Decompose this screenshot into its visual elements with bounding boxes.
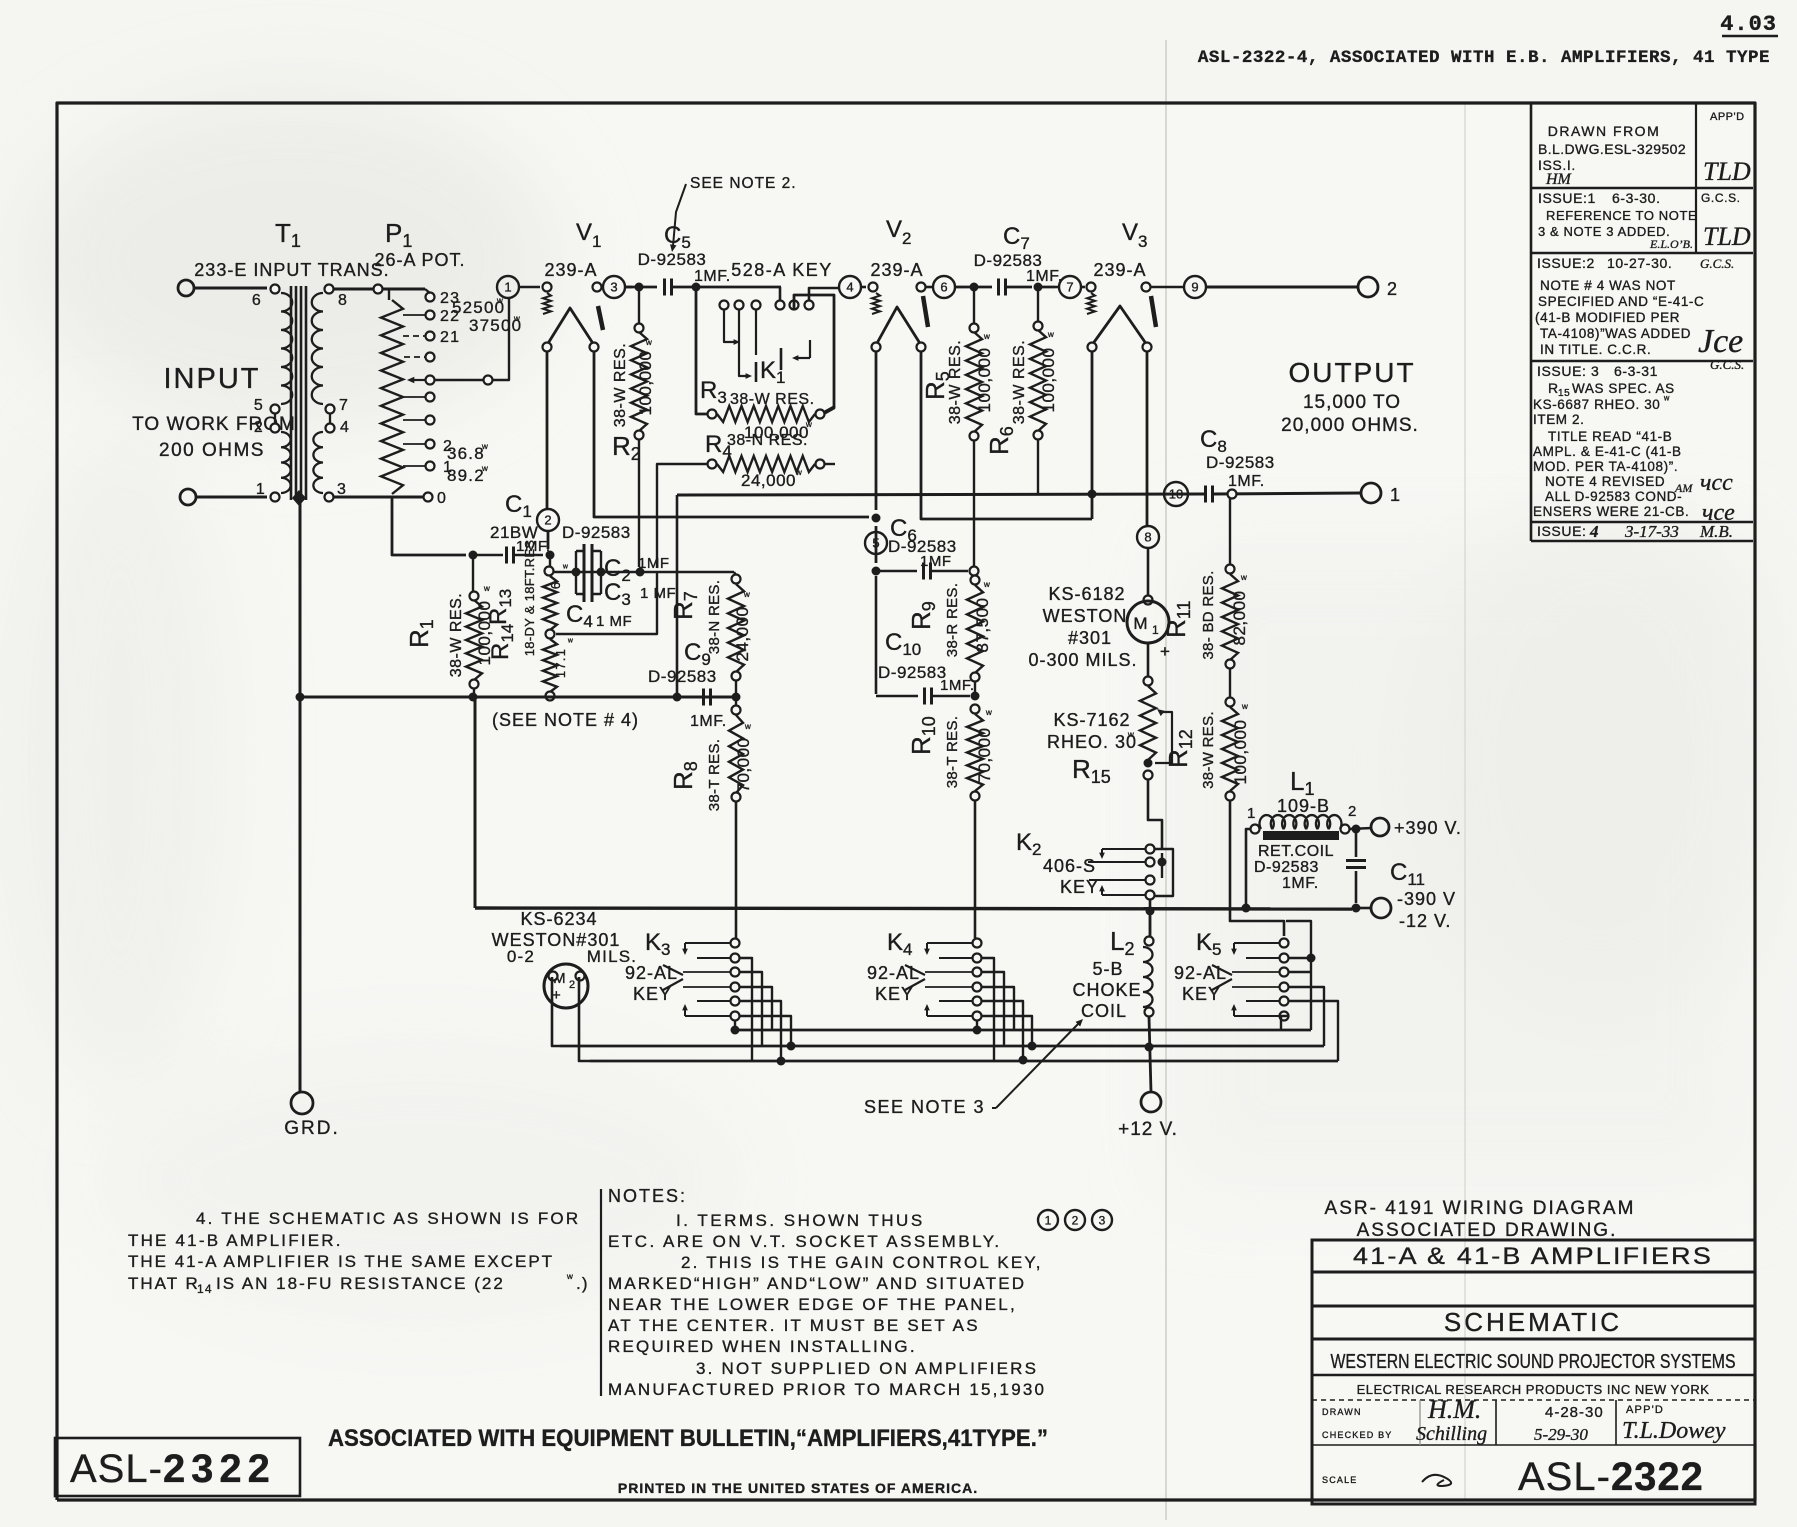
svg-text:KS-6182: KS-6182 [1048, 584, 1125, 604]
wire P1 bottom to C1 [392, 497, 466, 555]
svg-text:NEAR THE LOWER EDGE OF TH: NEAR THE LOWER EDGE OF THE PANEL, [608, 1295, 1017, 1314]
svg-text:10: 10 [1169, 487, 1183, 502]
wire M2 right to bus3 [579, 977, 590, 1061]
svg-text:D-92583: D-92583 [1206, 453, 1275, 472]
svg-text:1: 1 [504, 280, 511, 295]
svg-text:H.M.: H.M. [1427, 1395, 1481, 1424]
svg-text:82,000: 82,000 [1230, 591, 1249, 646]
svg-text:KEY: KEY [633, 984, 672, 1004]
svg-text:WESTERN ELECTRIC SOUND PROJECT: WESTERN ELECTRIC SOUND PROJECTOR SYSTEMS [1331, 1351, 1736, 1373]
svg-text:ʷ: ʷ [1241, 701, 1249, 715]
svg-text:NOTE 4 REVISED: NOTE 4 REVISED [1545, 474, 1665, 489]
svg-text:2. THIS IS THE GAIN CONTRO: 2. THIS IS THE GAIN CONTROL KEY, [681, 1253, 1043, 1272]
junction C10 R10 [971, 692, 980, 701]
svg-text:ASR- 4191 WIRING DIAGRAM: ASR- 4191 WIRING DIAGRAM [1325, 1198, 1636, 1219]
svg-text:21: 21 [440, 329, 460, 346]
notes divider line [600, 1189, 602, 1396]
svg-text:-390 V: -390 V [1397, 889, 1456, 909]
svg-text:M: M [1133, 614, 1148, 633]
resistor R7 [732, 575, 741, 584]
resistor R1 [472, 559, 474, 592]
vt socket terminal 9 [1184, 276, 1206, 298]
svg-text:B.L.DWG.ESL-329502: B.L.DWG.ESL-329502 [1538, 141, 1686, 157]
resistor R10 [974, 681, 976, 692]
svg-text:8: 8 [1144, 530, 1151, 545]
svg-text:239-A: 239-A [1093, 260, 1146, 280]
svg-text:1MF.: 1MF. [690, 713, 727, 730]
svg-text:8: 8 [338, 292, 348, 309]
svg-text:38-R RES.: 38-R RES. [944, 583, 961, 657]
svg-text:17.1: 17.1 [553, 648, 568, 678]
svg-text:KS-6687 RHEO. 30: KS-6687 RHEO. 30 [1533, 397, 1660, 412]
svg-text:SEE NOTE 3: SEE NOTE 3 [864, 1097, 985, 1117]
svg-text:200 OHMS: 200 OHMS [159, 440, 265, 461]
svg-text:92-AL: 92-AL [867, 963, 920, 983]
svg-text:D-92583: D-92583 [562, 523, 631, 542]
svg-text:24,000: 24,000 [741, 471, 796, 490]
svg-text:92-AL: 92-AL [625, 963, 678, 983]
svg-text:TLD: TLD [1703, 157, 1751, 186]
svg-text:MARKED“HIGH” AND“LOW” AND SITU: MARKED“HIGH” AND“LOW” AND SITUATED [608, 1274, 1026, 1293]
wire K5 risers [1286, 921, 1311, 958]
svg-text:ASL-2322-4, ASSOCIATED WITH E.: ASL-2322-4, ASSOCIATED WITH E.B. AMPLIFI… [1198, 48, 1770, 68]
rheostat R15 KS-7162 [1140, 686, 1156, 760]
svg-text:5: 5 [254, 397, 264, 414]
svg-text:G.C.S.: G.C.S. [1701, 191, 1741, 205]
svg-text:ISSUE:2: ISSUE:2 [1537, 255, 1595, 271]
svg-text:38-T RES.: 38-T RES. [944, 716, 961, 788]
svg-text:.): .) [576, 1274, 589, 1293]
transformer T1 core [290, 286, 293, 500]
svg-text:SCHEMATIC: SCHEMATIC [1444, 1307, 1622, 1337]
svg-text:MANUFACTURED PRIOR TO MARCH: MANUFACTURED PRIOR TO MARCH 15,1930 [608, 1380, 1046, 1399]
svg-text:1: 1 [1152, 623, 1160, 637]
svg-text:+390 V.: +390 V. [1394, 818, 1462, 838]
svg-text:WESTON: WESTON [1043, 606, 1128, 626]
potentiometer P1 resistance element [381, 300, 403, 494]
wire V2 leg to C10 [875, 576, 878, 694]
resistor R8 [735, 701, 737, 706]
junction C5 output node [692, 283, 701, 292]
svg-text:ʷ: ʷ [743, 589, 751, 603]
svg-text:1: 1 [256, 481, 266, 498]
svg-text:1: 1 [1247, 805, 1257, 822]
svg-text:70,000: 70,000 [734, 738, 753, 793]
svg-text:2: 2 [569, 979, 576, 991]
resistor R6 [1037, 291, 1039, 322]
svg-text:4-28-30: 4-28-30 [1545, 1404, 1604, 1421]
svg-text:ELECTRICAL RESEARCH PRODUCTS: ELECTRICAL RESEARCH PRODUCTS INC NEW YOR… [1357, 1382, 1710, 1397]
svg-text:6-3-30.: 6-3-30. [1612, 190, 1661, 206]
junction R5 top [970, 283, 979, 292]
svg-text:NOTES:: NOTES: [608, 1186, 687, 1206]
svg-text:D-92583: D-92583 [878, 663, 947, 682]
wire R10 to key K4 [974, 800, 977, 938]
svg-text:100,000: 100,000 [636, 351, 655, 416]
wire bottom bus 1 [735, 1029, 1311, 1032]
wire V1 plate to terminal 3 [601, 286, 604, 289]
svg-text:6: 6 [940, 280, 947, 295]
svg-text:38-W RES.: 38-W RES. [1200, 711, 1217, 789]
svg-text:2: 2 [544, 513, 551, 528]
key K5 92-AL [1280, 939, 1289, 948]
resistor R12 [1229, 668, 1231, 698]
svg-text:Schilling: Schilling [1416, 1423, 1487, 1445]
svg-text:KEY: KEY [1182, 984, 1221, 1004]
wire L1 left to negative bus [1246, 829, 1251, 906]
wire R8 to key K3 [735, 801, 738, 938]
svg-text:38-N RES.: 38-N RES. [706, 580, 723, 654]
svg-text:38-W RES.: 38-W RES. [612, 343, 629, 428]
svg-text:ʷ: ʷ [481, 441, 489, 455]
svg-text:1: 1 [1045, 1213, 1052, 1227]
svg-text:38-W RES.: 38-W RES. [448, 593, 465, 678]
wire terminal 8 to meter M1 [1147, 548, 1150, 597]
potentiometer P1 taps [426, 293, 435, 302]
svg-text:T.L.Dowey: T.L.Dowey [1622, 1418, 1726, 1444]
junction R1 bottom [469, 693, 478, 702]
output terminal 1 [1361, 483, 1381, 503]
svg-text:0-300 MILS.: 0-300 MILS. [1028, 650, 1137, 670]
svg-text:38-W RES.: 38-W RES. [947, 340, 964, 425]
wire ground lead [299, 498, 302, 1092]
capacitor C11 [1355, 833, 1358, 857]
wire P1 bottom row [334, 496, 424, 499]
svg-text:14: 14 [197, 1282, 213, 1296]
transformer T1 secondary winding [325, 285, 334, 294]
svg-text:APP'D: APP'D [1710, 111, 1745, 123]
svg-text:10-27-30.: 10-27-30. [1607, 255, 1672, 271]
svg-text:ʷ: ʷ [744, 721, 752, 735]
svg-text:15,000 TO: 15,000 TO [1303, 392, 1401, 413]
svg-text:ISSUE:: ISSUE: [1537, 523, 1587, 539]
svg-text:1MF.: 1MF. [1282, 875, 1319, 892]
svg-text:ʷ: ʷ [481, 463, 489, 477]
wire V2 filament right leg to V3 [921, 351, 1092, 519]
wire terminal1 to V1 grid [519, 286, 540, 289]
svg-text:9: 9 [1191, 280, 1198, 295]
svg-text:3: 3 [1099, 1213, 1106, 1227]
svg-text:ʷ: ʷ [1047, 329, 1055, 343]
potentiometer wiper arrow [410, 379, 425, 381]
svg-text:E.L.O’B.: E.L.O’B. [1649, 237, 1693, 251]
wire C2 C3 to R7 [576, 571, 734, 573]
junction R1 top [469, 551, 478, 560]
wire bottom bus 2 [560, 1045, 1324, 1048]
svg-text:CHOKE: CHOKE [1072, 980, 1141, 1000]
svg-text:V: V [576, 219, 593, 246]
svg-text:ʷ: ʷ [1240, 572, 1248, 586]
wire negative supply bus [475, 908, 1352, 909]
wire M1 to R15 [1147, 643, 1150, 678]
svg-text:AMPL. & E-41-C (41-B: AMPL. & E-41-C (41-B [1533, 444, 1682, 459]
svg-text:1: 1 [592, 232, 603, 251]
svg-text:2: 2 [1387, 279, 1398, 299]
svg-text:AT THE CENTER. IT MUST B: AT THE CENTER. IT MUST BE SET AS [608, 1316, 980, 1335]
svg-text:1MF.: 1MF. [694, 268, 731, 285]
svg-text:2: 2 [254, 419, 264, 436]
svg-text:-12 V.: -12 V. [1399, 911, 1451, 931]
vt socket terminal 1 [497, 276, 519, 298]
svg-text:#301: #301 [1068, 628, 1112, 648]
wire left box vertical [474, 698, 477, 908]
svg-text:ASL-2322: ASL-2322 [70, 1447, 276, 1491]
svg-text:NOTE # 4 WAS NOT: NOTE # 4 WAS NOT [1540, 278, 1676, 293]
svg-text:DRAWN FROM: DRAWN FROM [1548, 123, 1660, 139]
junction C11 negative bus [1352, 904, 1361, 913]
wire plate bus [677, 494, 1204, 495]
svg-text:1 MF: 1 MF [596, 613, 632, 630]
svg-text:ASSOCIATED DRAWING.: ASSOCIATED DRAWING. [1357, 1220, 1618, 1241]
svg-text:1MF.: 1MF. [940, 677, 975, 694]
svg-text:20,000 OHMS.: 20,000 OHMS. [1281, 415, 1419, 436]
junction C9 R7 [732, 693, 741, 702]
input terminal bottom [180, 489, 196, 505]
vt socket terminal 10 [1164, 482, 1188, 506]
svg-text:528-A KEY: 528-A KEY [731, 260, 833, 280]
svg-text:38-N RES.: 38-N RES. [727, 432, 808, 449]
wire K2 to negative bus [1149, 900, 1152, 936]
svg-text:38-W RES.: 38-W RES. [730, 391, 815, 408]
svg-text:CHECKED BY: CHECKED BY [1322, 1430, 1393, 1440]
svg-text:KS-7162: KS-7162 [1053, 710, 1130, 730]
svg-text:2: 2 [1348, 803, 1358, 820]
svg-text:4: 4 [1589, 522, 1599, 541]
svg-text:G.C.S.: G.C.S. [1700, 256, 1734, 271]
svg-text:ITEM 2.: ITEM 2. [1533, 412, 1584, 427]
svg-text:2: 2 [1072, 1213, 1079, 1227]
resistor R5 [973, 291, 975, 324]
vt socket terminal 6 [933, 276, 955, 298]
transformer T1 primary winding [271, 285, 280, 294]
vt socket terminal 2 [537, 509, 559, 531]
svg-text:100,000: 100,000 [1231, 720, 1250, 785]
capacitor C4 loop [556, 572, 657, 634]
svg-text:ʷ: ʷ [1127, 729, 1135, 743]
svg-text:I. TERMS. SHOWN THUS: I. TERMS. SHOWN THUS [676, 1211, 925, 1230]
svg-text:ʷ: ʷ [566, 1271, 574, 1285]
svg-text:ALL D-92583 COND-: ALL D-92583 COND- [1545, 489, 1682, 504]
svg-text:5: 5 [872, 536, 879, 551]
svg-text:ʷ: ʷ [567, 637, 574, 648]
svg-text:COIL: COIL [1081, 1001, 1127, 1021]
wire L1 right to +390 [1349, 828, 1372, 829]
svg-text:0: 0 [437, 490, 447, 507]
svg-text:2: 2 [902, 229, 913, 248]
wire V1 filament left leg [546, 351, 549, 509]
terminal +390V [1371, 818, 1389, 836]
svg-text:1: 1 [1390, 485, 1401, 505]
resistor R11 [1229, 498, 1231, 565]
svg-text:MOD. PER TA-4108)”.: MOD. PER TA-4108)”. [1533, 459, 1678, 474]
svg-text:26-A POT.: 26-A POT. [374, 250, 465, 270]
svg-text:Jce: Jce [1698, 323, 1743, 360]
terminal -390V -12V [1371, 898, 1391, 918]
svg-text:5-29-30: 5-29-30 [1534, 1425, 1588, 1444]
revision table [1530, 104, 1533, 541]
svg-text:6: 6 [548, 581, 563, 589]
resistor R3 [708, 410, 717, 419]
ground terminal GRD [291, 1092, 313, 1114]
svg-text:ʷ: ʷ [1663, 394, 1670, 406]
svg-text:KEY: KEY [1060, 877, 1099, 897]
capacitors C2 C3 [554, 571, 572, 573]
svg-text:41-A & 41-B AMPLIFIERS: 41-A & 41-B AMPLIFIERS [1353, 1243, 1713, 1270]
junction C1 V1 cathode [546, 551, 555, 560]
svg-text:4. THE SCHEMATIC AS SHOWN IS: 4. THE SCHEMATIC AS SHOWN IS FOR [196, 1209, 580, 1228]
svg-text:IN TITLE. C.C.R.: IN TITLE. C.C.R. [1540, 342, 1651, 357]
svg-text:M.B.: M.B. [1699, 522, 1733, 541]
wire V3 filament left leg [1091, 351, 1094, 519]
svg-text:92-AL: 92-AL [1174, 963, 1227, 983]
fold line vertical [1165, 40, 1167, 1520]
svg-text:ʷ: ʷ [513, 313, 521, 327]
svg-text:3. NOT SUPPLIED ON AMPLIFI: 3. NOT SUPPLIED ON AMPLIFIERS [696, 1359, 1038, 1378]
svg-text:ʷ: ʷ [795, 467, 803, 481]
vt socket terminal 4 [839, 276, 861, 298]
svg-text:DRAWN: DRAWN [1322, 1407, 1362, 1417]
svg-text:THE 41-B AMPLIFIER.: THE 41-B AMPLIFIER. [128, 1231, 343, 1250]
svg-text:(41-B MODIFIED PER: (41-B MODIFIED PER [1535, 310, 1680, 325]
svg-text:TA-4108)”WAS ADDED: TA-4108)”WAS ADDED [1540, 326, 1691, 341]
junction R2 top [635, 283, 644, 292]
svg-text:ʷ: ʷ [983, 331, 991, 345]
wire K1 left side down to R3 [696, 291, 708, 414]
svg-text:SCALE: SCALE [1322, 1475, 1358, 1485]
svg-text:233-E INPUT TRANS.: 233-E INPUT TRANS. [194, 260, 389, 280]
wire M2 left to bus2 [552, 977, 560, 1046]
svg-text:ASL-2322: ASL-2322 [1518, 1455, 1704, 1499]
svg-text:239-A: 239-A [544, 260, 597, 280]
svg-text:OUTPUT: OUTPUT [1288, 357, 1415, 388]
svg-text:24,000: 24,000 [733, 607, 752, 662]
svg-text:REQUIRED WHEN INSTALLING.: REQUIRED WHEN INSTALLING. [608, 1337, 917, 1356]
svg-text:ʷ: ʷ [983, 579, 991, 593]
svg-text:ISSUE: 3: ISSUE: 3 [1537, 363, 1599, 379]
key K4 92-AL [973, 939, 982, 948]
svg-text:38-W RES.: 38-W RES. [1011, 340, 1028, 425]
wire K3 risers [740, 958, 752, 1061]
output terminal 2 [1358, 277, 1378, 297]
wire terminal 9 to output 2 [1206, 286, 1359, 289]
junction K2 bus [1146, 907, 1155, 916]
svg-text:100,000: 100,000 [975, 348, 994, 413]
svg-text:100,000: 100,000 [1039, 348, 1058, 413]
wire bottom bus 3 [590, 1060, 1338, 1063]
vt socket terminal 8 [1137, 526, 1159, 548]
svg-text:1MF.: 1MF. [1228, 473, 1265, 490]
svg-text:ISSUE:1: ISSUE:1 [1538, 190, 1596, 206]
svg-text:3: 3 [337, 481, 347, 498]
junction R11 tap [1228, 490, 1237, 499]
wire L2 to +12V [1149, 1017, 1151, 1092]
svg-text:6-3-31: 6-3-31 [1614, 363, 1658, 379]
svg-text:+: + [552, 987, 562, 1004]
svg-text:ASSOCIATED WITH EQUIPMENT BUL: ASSOCIATED WITH EQUIPMENT BULLETIN,“AMPL… [328, 1425, 1048, 1452]
see note 2 leader arrow [673, 184, 686, 246]
svg-text:V: V [1122, 219, 1139, 246]
terminal +12V [1141, 1092, 1161, 1112]
wire R15 to key K2 [1148, 780, 1162, 848]
vt socket terminal 5 [865, 532, 887, 554]
svg-text:+12 V.: +12 V. [1118, 1119, 1178, 1140]
svg-text:V: V [886, 216, 903, 243]
svg-text:3: 3 [1138, 232, 1149, 251]
wire V1 filament right leg to bus [594, 351, 869, 517]
svg-text:D-92583: D-92583 [638, 250, 707, 269]
svg-text:TITLE READ “41-B: TITLE READ “41-B [1548, 429, 1672, 444]
svg-text:1MF.: 1MF. [1026, 268, 1063, 285]
svg-text:89.2: 89.2 [447, 466, 485, 485]
resistor R9 [971, 576, 980, 585]
wire grid bias bus see note 4 [302, 696, 740, 699]
wire K3 K4 lower contact stubs [734, 1020, 736, 1030]
junction R6 top [1034, 283, 1043, 292]
drawing number box ASL-2322 [55, 1438, 300, 1496]
svg-text:ʷ: ʷ [483, 583, 491, 597]
svg-text:37,500: 37,500 [973, 598, 992, 653]
junction V3 leg plate bus [1088, 490, 1097, 499]
svg-text:ʷ: ʷ [985, 707, 993, 721]
wire K1 right side box [794, 295, 834, 413]
resistor R4 [708, 460, 717, 469]
resistor R14 [543, 639, 557, 692]
resistor R13 [549, 559, 551, 566]
svg-text:4.03: 4.03 [1720, 12, 1777, 37]
svg-text:7: 7 [1066, 280, 1073, 295]
junction ground bus [296, 693, 305, 702]
wire R4 left to C4 node [657, 464, 708, 568]
svg-text:чcc: чcc [1700, 470, 1733, 496]
svg-text:38- BD RES.: 38- BD RES. [1200, 570, 1217, 659]
input terminal top [178, 280, 194, 296]
svg-text:TLD: TLD [1703, 222, 1751, 251]
svg-text:RHEO. 30: RHEO. 30 [1047, 732, 1137, 752]
svg-text:239-A: 239-A [870, 260, 923, 280]
wire T1 secondary to P1 top [334, 288, 425, 291]
svg-text:+: + [1160, 642, 1171, 661]
svg-text:38-T RES.: 38-T RES. [706, 739, 723, 811]
junction filament bus V2 [872, 514, 881, 523]
svg-text:IS AN 18-FU RESISTANCE (2: IS AN 18-FU RESISTANCE (22 [216, 1274, 505, 1293]
svg-text:INPUT: INPUT [164, 363, 261, 395]
svg-text:G.C.S.: G.C.S. [1710, 357, 1744, 372]
svg-text:5-B: 5-B [1092, 959, 1123, 979]
svg-text:SPECIFIED AND “E-41-C: SPECIFIED AND “E-41-C [1538, 294, 1704, 309]
svg-text:THAT R: THAT R [128, 1274, 200, 1293]
svg-text:3-17-33: 3-17-33 [1624, 522, 1679, 541]
wire R12 to key K5 [1230, 800, 1284, 936]
wire V2 filament left leg [875, 351, 878, 510]
svg-text:REFERENCE TO NOTE: REFERENCE TO NOTE [1546, 208, 1697, 223]
svg-text:0-2: 0-2 [507, 947, 535, 966]
svg-text:3: 3 [610, 280, 617, 295]
svg-text:ETC. ARE ON V.T. SOCKET ASSE: ETC. ARE ON V.T. SOCKET ASSEMBLY. [608, 1232, 1002, 1251]
vt socket terminal 7 [1059, 276, 1081, 298]
svg-text:ʷ: ʷ [645, 337, 653, 351]
svg-text:KEY: KEY [875, 984, 914, 1004]
svg-text:109-B: 109-B [1277, 796, 1330, 816]
wire V3 filament right leg [1146, 351, 1149, 526]
svg-text:(SEE NOTE # 4): (SEE NOTE # 4) [492, 710, 639, 730]
svg-text:KS-6234: KS-6234 [520, 909, 597, 929]
svg-text:GRD.: GRD. [284, 1118, 340, 1139]
junction bias bus C9 [673, 693, 682, 702]
svg-text:70,000: 70,000 [975, 728, 994, 783]
svg-text:SEE NOTE 2.: SEE NOTE 2. [690, 175, 797, 192]
svg-text:36.8: 36.8 [447, 444, 485, 463]
title block box [1312, 1240, 1755, 1504]
